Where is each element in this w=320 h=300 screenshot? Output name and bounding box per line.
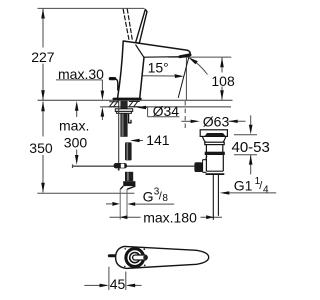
svg-text:4: 4 [263, 185, 269, 196]
svg-text:max.180: max.180 [143, 210, 197, 226]
svg-text:max.30: max.30 [58, 66, 104, 82]
svg-text:G1: G1 [234, 177, 253, 193]
svg-text:8: 8 [162, 193, 168, 204]
svg-text:Ø63: Ø63 [203, 113, 230, 129]
svg-text:15°: 15° [148, 60, 169, 76]
svg-text:300: 300 [64, 134, 88, 150]
svg-text:141: 141 [146, 132, 170, 148]
svg-text:108: 108 [211, 73, 235, 89]
svg-text:Ø34: Ø34 [153, 103, 180, 119]
svg-text:45: 45 [110, 276, 126, 292]
svg-text:max.: max. [59, 117, 89, 133]
svg-text:G: G [143, 189, 154, 205]
svg-text:227: 227 [31, 49, 55, 65]
svg-text:40-53: 40-53 [232, 139, 270, 156]
svg-text:350: 350 [29, 140, 53, 156]
